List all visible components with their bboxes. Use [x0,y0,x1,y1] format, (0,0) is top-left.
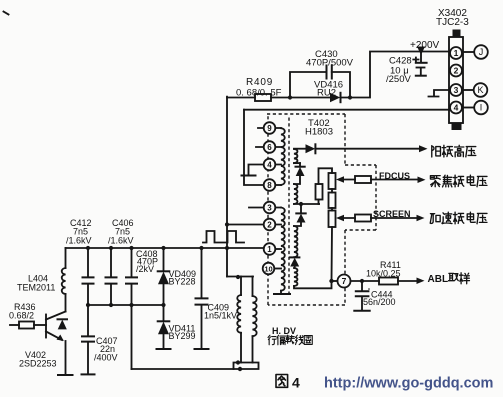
junction bus/VD409 [161,246,165,250]
capacitor C407 [82,305,94,374]
FBT pin 4 [264,159,276,171]
diode HV internal 1 [294,163,305,184]
label figure 4 [276,375,300,391]
svg-text:0.68/2: 0.68/2 [9,311,34,321]
ground at C409 [195,348,209,350]
wire collector bus (top) [66,247,264,249]
svg-text:8: 8 [267,181,272,190]
label focus voltage (Chinese) [430,175,487,187]
svg-text:4: 4 [267,161,272,170]
svg-text:/400V: /400V [94,353,118,363]
node J [474,45,488,59]
deflection coil H.DY right winding [253,277,257,363]
label R409 value [236,77,282,99]
wire stub pin 6 [256,146,281,148]
resistor R436 [19,322,34,329]
wire bottom return [132,363,259,370]
svg-text:+200V: +200V [410,40,440,51]
wire pin4 to node I [462,107,474,109]
dashed transformer core line [288,118,290,294]
svg-text:470P/500V: 470P/500V [306,58,354,69]
ground at C407 [82,373,95,375]
label C408 value [136,249,158,274]
wire chain link [331,189,333,193]
primary winding pins 3-2-1-10 [281,208,285,291]
FBT pin 9 [264,122,276,134]
label screen voltage (Chinese) [430,212,487,224]
stray scan mark top-left [4,12,9,15]
wire secondary bottom to ABL node [294,281,332,288]
wire stub pin 10 [274,268,281,270]
junction midbus/VD409 [161,303,165,307]
wire stub pin 9 [258,127,281,129]
primary winding pins 9-6-4-8 [281,128,285,185]
svg-text:10: 10 [264,265,272,274]
svg-text:1: 1 [267,245,272,254]
svg-text:/250V: /250V [386,74,411,85]
svg-text:2SD2253: 2SD2253 [19,359,57,369]
svg-text:2: 2 [454,66,459,76]
svg-text:0. 68/0. 5F: 0. 68/0. 5F [236,88,282,99]
wire to +200V rail [350,52,450,98]
svg-text:3: 3 [267,204,272,213]
svg-text:TJC2-3: TJC2-3 [436,17,469,28]
focus wiper arrow [336,176,344,182]
svg-text:9: 9 [267,124,272,133]
wire stub pin 1 [275,248,281,250]
diode HV rectifier top [306,144,316,153]
small scan speck [368,288,370,290]
junction bus/feed line [225,246,229,250]
wire pin 7 to R411 [351,280,380,282]
wire H.DY bottom bar [234,363,253,370]
focus/screen divider top link [319,168,333,184]
flyback pulse waveform symbol [203,231,244,243]
junction bus/C408 [129,246,133,250]
svg-text:4: 4 [454,103,459,113]
wire vertical feed line x=227 [226,97,228,277]
wire mid bus [88,304,164,306]
junction H.DY bottom [236,360,240,364]
svg-text:2: 2 [267,221,272,230]
svg-text:BY299: BY299 [169,331,196,341]
FBT pin 2 [264,219,276,231]
label VD411 BY299 [169,324,196,342]
svg-text:6: 6 [267,143,272,152]
connector X3402 label [436,8,469,28]
svg-text:1: 1 [454,48,459,58]
label VD416 value [314,80,343,99]
label VD409 BY228 [169,269,197,287]
wire stub pin 2 joins feed line [227,224,281,226]
wire focus divider feed tap [294,203,319,205]
svg-text:56n/200: 56n/200 [363,297,396,307]
label R436 value [9,302,36,321]
HV secondary winding section S1 [294,149,297,163]
wire B+ input via R409 [227,97,290,99]
ground at VD411 [157,348,171,350]
dashed FBT enclosure box [267,114,376,305]
svg-text:R409: R409 [246,77,273,88]
resistor divider chain 3 [329,211,336,228]
wire S1 jog to diode 1 [294,162,300,164]
svg-text:1n5/1kV: 1n5/1kV [204,311,237,321]
wire R411 to ABL output [398,280,417,282]
svg-text:I: I [480,103,483,113]
svg-text:H1803: H1803 [305,127,333,138]
svg-text:10k/0.25: 10k/0.25 [366,269,401,279]
resistor divider chain 1 [329,173,336,189]
junction midbus/C406 [109,303,113,307]
diode VD409 [158,248,170,305]
svg-text:/1.6kV: /1.6kV [108,236,134,246]
svg-text:7: 7 [342,276,347,286]
connector pin 2 [450,65,462,77]
inductor L404 [62,248,66,312]
wire ground return rail y=110 [244,109,450,111]
label C412 value [66,218,92,246]
arrow anode output [419,145,428,152]
svg-text:K: K [477,85,483,95]
resistor screen series [355,215,371,222]
svg-text:J: J [479,47,484,57]
label C407 value [94,336,118,363]
label C444 value [363,290,396,308]
diode HV internal 3 [290,257,299,268]
svg-text:BY228: BY228 [169,277,196,287]
junction midbus/C408 [129,303,133,307]
connector X3402 body [449,30,463,131]
svg-text:FDCUS: FDCUS [379,171,410,181]
connector pin 1 [450,47,462,59]
label ABL sampling [428,273,470,285]
resistor focus series [355,176,371,183]
arrow screen output [417,215,425,222]
ground at V402 emitter [58,374,73,376]
wire pin1 to node J [462,51,474,53]
wire pin3 to node K [462,89,473,91]
label T402 H1803 [305,118,333,138]
junction bottom return [238,367,242,371]
ground at FBT pin 4 [242,175,256,177]
resistor divider series (left) [316,184,323,200]
FBT pin 10 [263,263,275,275]
svg-text:/1.6kV: /1.6kV [66,236,92,246]
capacitor C430 (top branch of parallel pair) [290,66,350,98]
wire chain link [331,208,333,211]
capacitor C428 electrolytic [413,54,426,76]
label L404 TEM2011 [17,274,55,293]
svg-text:RU2: RU2 [317,88,336,99]
HV secondary winding section S3 [294,226,297,257]
FBT pin 6 [264,141,276,153]
ground at FBT pin 10 winding [274,293,290,295]
junction bus/C412 [86,246,90,250]
label C406 value [108,218,134,246]
svg-text:4: 4 [292,375,300,391]
svg-text:http://www.go-gddq.com: http://www.go-gddq.com [324,376,493,392]
screen wiper arrow [336,215,344,221]
label H.DV deflection coil [268,326,312,345]
node K [474,83,488,97]
wire stub pin 8 [275,184,281,186]
capacitor C444 [354,281,369,311]
diode damper inside V402 [58,319,68,329]
chassis ground at connector pin 3 [429,90,451,97]
label anode high voltage (Chinese) [432,145,476,157]
wire left resistor bottom to tap [318,200,321,205]
HV secondary winding section S2 [294,184,297,204]
FBT pin 3 [264,202,276,214]
diode VD411 [158,305,170,349]
junction bus/C406 [109,246,113,250]
arrow focus output [418,177,426,184]
HV secondary winding section S4 [294,268,297,286]
junction midbus/C412 [86,303,90,307]
resistor R409 [255,94,271,101]
connector pin 4 [450,102,462,114]
label C409 value [204,303,237,321]
svg-text:TEM2011: TEM2011 [17,283,55,293]
wire ABL node to pin 7 [332,280,338,282]
resistor R411 [379,278,398,285]
junction H.DY top [236,275,240,279]
svg-text:3: 3 [454,85,459,95]
label C430 value [306,49,354,69]
node I [474,101,488,115]
diode VD416 [290,93,350,102]
wire stub pin 4 with ground [249,165,282,176]
diode HV internal 2 [294,204,306,226]
node +200V supply marker [410,40,440,55]
label V402 2SD2253 [19,350,57,369]
junction C444 tap [360,279,364,283]
wire focus output [340,179,418,181]
arrow ABL output [417,278,425,285]
wire R436 to base [34,324,46,326]
wire chain bottom to ABL node [331,227,334,281]
wire stub pin 3 [249,207,281,209]
capacitor C409 [196,248,208,349]
resistor divider chain 2 [329,193,336,209]
wire screen output [340,217,417,219]
capacitor C412 [83,248,94,305]
wire corner from rail down to FBT pin 8 [244,110,264,185]
wire anode HV output line [315,148,420,150]
wire base input [10,324,19,326]
junction tap/diode2 [299,202,303,206]
svg-text:SCREEN: SCREEN [373,209,411,219]
connector pin 3 [450,84,462,96]
junction node left of parallel pair [288,95,292,99]
label C428 value [386,56,412,86]
junction pin2/feed line [225,222,229,226]
svg-text:/2kV: /2kV [136,264,154,274]
transistor V402 [46,312,66,375]
svg-text:H. DV: H. DV [272,326,296,336]
FBT pin 7 [338,275,351,288]
deflection coil H.DY left winding [237,277,241,363]
wire secondary top to HV diode [294,148,306,150]
wire feed line corner to H.DY [227,276,253,278]
svg-text:ABL: ABL [428,274,449,285]
capacitor C406 [106,248,117,305]
wire winding bottom to ground [280,291,282,294]
capacitor C408 [126,248,137,369]
junction bus/C409 [199,246,203,250]
FBT pin 8 [264,179,276,191]
junction ABL node [329,279,333,283]
junction node right of parallel pair [348,95,352,99]
FBT pin 1 [264,243,276,255]
label R411 value [366,260,401,279]
